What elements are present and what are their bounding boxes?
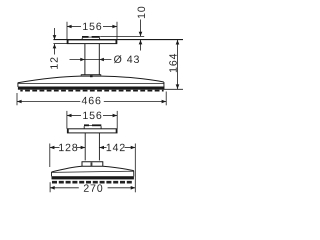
ceiling line — [53, 39, 183, 41]
nozzle dashes — [20, 90, 163, 92]
head top curve — [18, 76, 164, 83]
connector box bottom view — [84, 124, 89, 126]
head bottom view left edge — [51, 172, 53, 176]
dim 164 — [177, 40, 179, 89]
collar bottom view — [82, 162, 103, 166]
head bottom view bottom band — [52, 176, 134, 179]
dim 128 / 142 — [49, 144, 51, 168]
dim 156 top: extension lines — [66, 22, 68, 40]
bottom extension line at head base — [164, 88, 183, 90]
head bottom view right edge — [133, 171, 135, 177]
dim 156 top: dimension line with text gap — [67, 26, 81, 28]
dim 12 — [54, 28, 56, 40]
head bottom dark band — [18, 87, 164, 90]
head bottom view rim line — [52, 171, 134, 172]
dim 156 bottom — [66, 111, 68, 129]
dim 466 — [16, 93, 18, 105]
head bottom view top slopes — [52, 166, 134, 172]
plate bottom extension to left — [53, 43, 67, 45]
connector box above ceiling — [82, 36, 89, 38]
nozzle dashes bottom view — [52, 181, 133, 184]
dim 10: text rotated, line and arrows — [138, 7, 146, 18]
dim Ø43 — [70, 59, 112, 61]
stem pipe — [84, 44, 86, 75]
escutcheon plate bottom view — [67, 129, 117, 133]
head rim line — [18, 82, 165, 84]
extension line from connector box top — [100, 35, 144, 37]
head right edge — [163, 82, 165, 90]
escutcheon plate — [67, 40, 117, 44]
collar — [81, 74, 101, 76]
stem bottom view — [84, 133, 86, 161]
dim 270 — [49, 182, 51, 192]
